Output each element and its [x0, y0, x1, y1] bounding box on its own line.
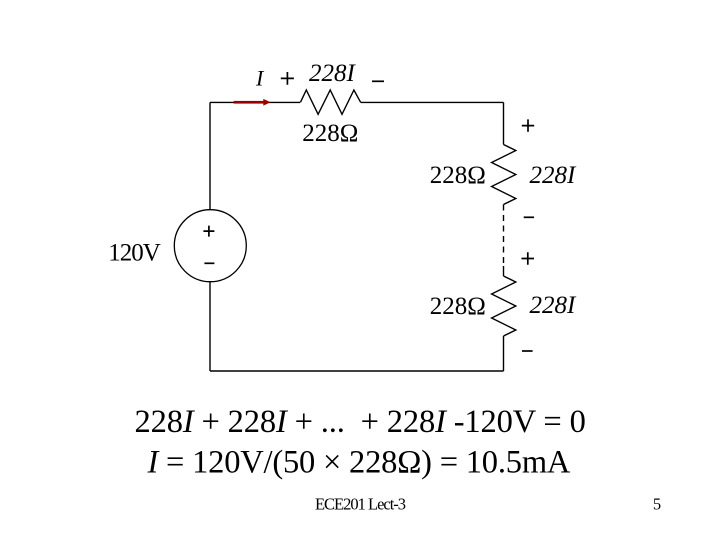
label + (source top polarity)	[203, 226, 214, 237]
label minus (R3 bottom polarity)	[522, 350, 533, 352]
resistor R2 (right upper vertical, 228 ohm)	[492, 145, 516, 205]
svg-text:228Ω: 228Ω	[430, 293, 486, 320]
current arrow I (red) on top wire	[234, 99, 271, 106]
label + (R1 left polarity)	[281, 72, 294, 85]
svg-text:I: I	[255, 66, 265, 91]
resistor R1 (top horizontal, 228 ohm)	[300, 90, 360, 114]
label minus (source bottom polarity)	[204, 262, 214, 264]
label minus (R1 right polarity)	[372, 80, 384, 82]
wire: bottom horizontal segment	[210, 370, 504, 372]
wire: top-left horizontal segment from left corner to resistor R1	[210, 101, 300, 103]
svg-text:228I: 228I	[530, 162, 578, 189]
svg-text:5: 5	[653, 495, 661, 514]
wire: dashed segment between R2 and R3 (omitted resistors)	[503, 205, 505, 267]
label + (R3 top polarity)	[522, 252, 535, 264]
svg-text:228I: 228I	[309, 60, 357, 87]
label minus (R2 bottom polarity)	[524, 216, 534, 218]
svg-text:228Ω: 228Ω	[302, 120, 358, 147]
svg-text:228I: 228I	[530, 292, 578, 319]
svg-text:228I + 228I + ... + 228I -120: 228I + 228I + ... + 228I -120V = 0	[135, 404, 586, 440]
resistor R3 (right lower vertical, 228 ohm)	[492, 276, 516, 336]
wire: short solid segment above R3	[503, 266, 505, 276]
svg-text:228Ω: 228Ω	[430, 162, 486, 189]
wire: right vertical segment from R3 to bottom-right corner	[503, 336, 505, 371]
wire: left vertical segment from source up to top-left corner	[209, 102, 211, 209]
voltage source V1 (120V, circle)	[174, 210, 246, 282]
wire: left vertical segment from bottom corner up to source	[209, 282, 211, 372]
label + (R2 top polarity)	[522, 119, 534, 131]
wire: top horizontal segment from R1 to top-right corner	[361, 101, 504, 103]
wire: right vertical segment from top-right corner to resistor R2	[503, 102, 505, 144]
svg-text:ECE201 Lect-3: ECE201 Lect-3	[315, 495, 406, 514]
svg-text:I = 120V/(50 × 228Ω) = 10.5mA: I = 120V/(50 × 228Ω) = 10.5mA	[147, 444, 571, 480]
svg-text:120V: 120V	[108, 240, 161, 267]
